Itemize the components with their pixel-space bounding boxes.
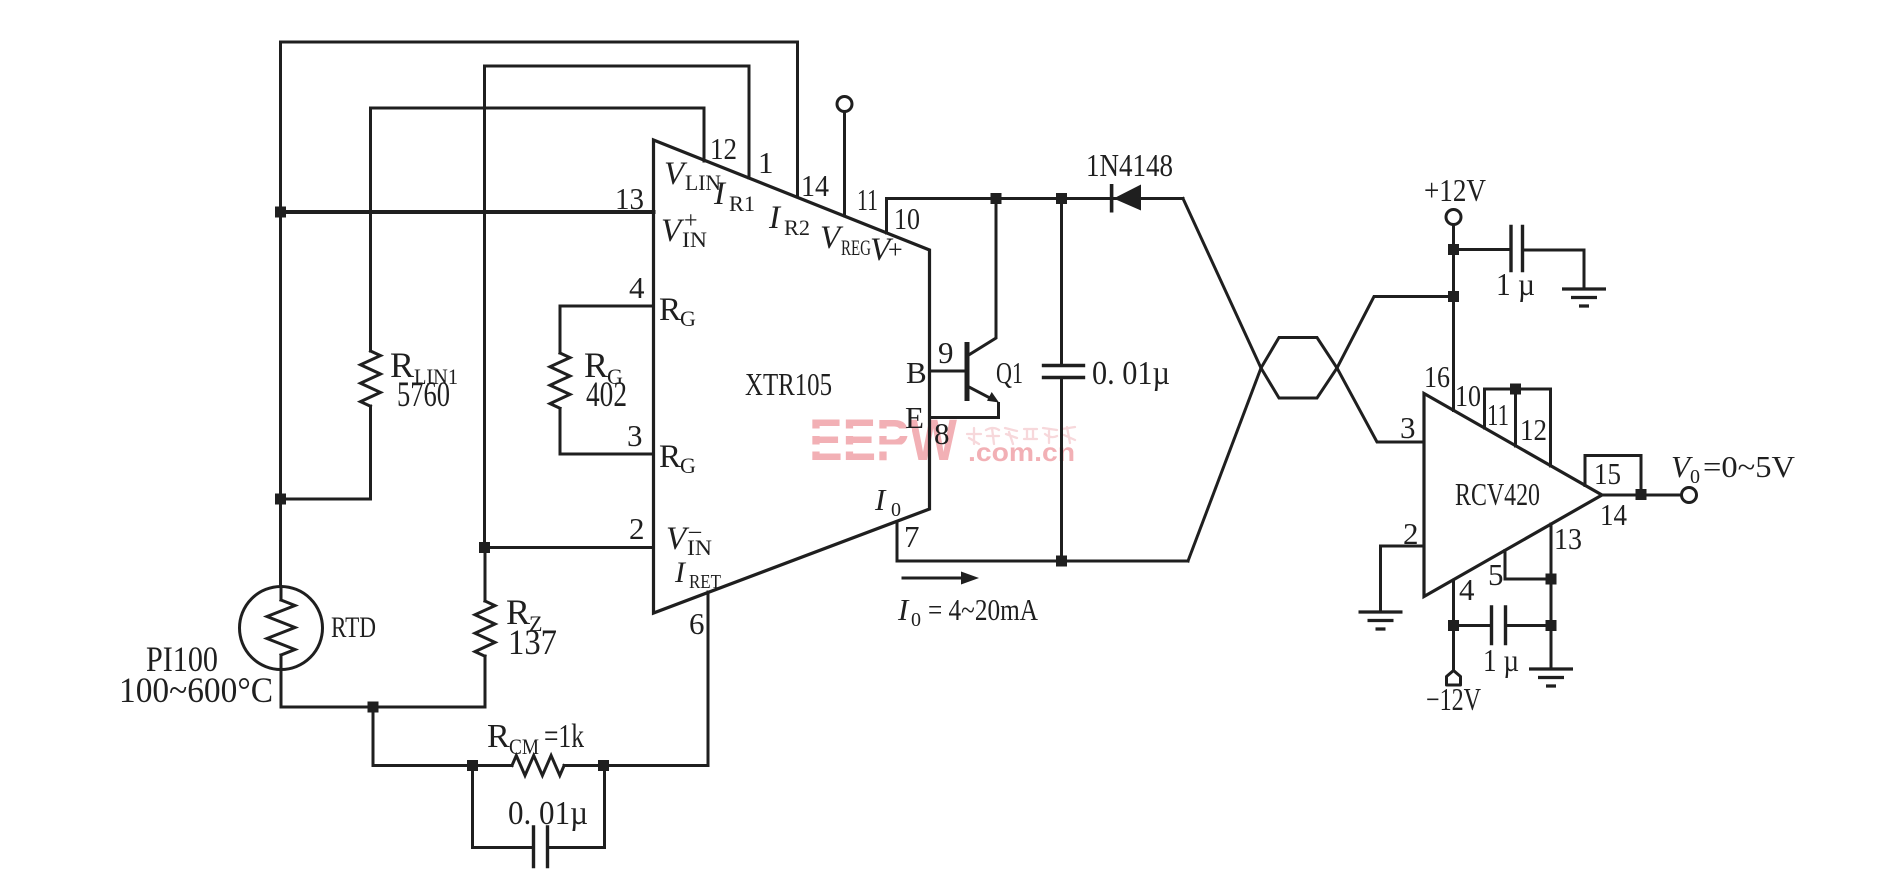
twisted pair loop hexagon: [1261, 338, 1337, 399]
wire RTD bottom rail to RZ: [281, 706, 485, 709]
svg-text:12: 12: [710, 131, 737, 166]
label RG: [584, 345, 623, 389]
wire twisted pair lower-right diagonal to pin 3: [1337, 368, 1424, 442]
transistor Q1 base bar: [965, 342, 970, 401]
terminal +12V: [1446, 210, 1461, 225]
svg-text:16: 16: [1424, 359, 1450, 394]
svg-text:14: 14: [1600, 497, 1627, 532]
svg-text:R: R: [659, 439, 681, 475]
wire pin 2 RCV to ground: [1381, 546, 1425, 612]
svg-text:0. 01µ: 0. 01µ: [508, 795, 588, 832]
wire pin 12 riser: [703, 108, 706, 161]
pin name IR1: [713, 176, 755, 216]
svg-text:1 µ: 1 µ: [1496, 266, 1535, 302]
wire pin 4 drop: [1452, 580, 1455, 671]
svg-text:RET: RET: [689, 571, 721, 593]
node junction RCM right: [598, 760, 609, 771]
capacitor C3 1u plates: [1492, 607, 1506, 644]
node junction pin15/output: [1636, 489, 1647, 500]
svg-text:1N4148: 1N4148: [1086, 147, 1173, 183]
svg-text:0. 01µ: 0. 01µ: [1092, 355, 1170, 392]
svg-text:8: 8: [934, 416, 950, 451]
transistor Q1 emitter: [967, 386, 989, 398]
terminal Vo output: [1682, 488, 1697, 503]
pin name IR2: [768, 200, 810, 240]
svg-text:6: 6: [689, 606, 705, 641]
svg-text:14: 14: [801, 168, 829, 203]
wire pin 15 feedback loop: [1585, 456, 1641, 495]
svg-text:0: 0: [911, 609, 921, 631]
svg-text:4: 4: [1459, 572, 1475, 607]
svg-text:R: R: [659, 292, 681, 328]
svg-text:I: I: [674, 556, 687, 589]
svg-text:1: 1: [758, 145, 774, 180]
wire twisted pair lower-left diagonal: [1188, 368, 1261, 561]
wire pin 1 riser: [748, 66, 751, 178]
wire +12V vertical to pin 16: [1452, 225, 1455, 411]
svg-text:G: G: [680, 453, 696, 478]
pin name RG lower: [659, 439, 696, 478]
node junction Q1 collector: [991, 193, 1002, 204]
svg-text:9: 9: [938, 335, 954, 370]
svg-text:RTD: RTD: [331, 611, 376, 644]
pin name Vin-: [666, 518, 712, 560]
node junction RCM left: [467, 760, 478, 771]
svg-text:I: I: [713, 176, 727, 212]
svg-text:100~600°C: 100~600°C: [119, 670, 273, 710]
pin name VLIN: [664, 156, 721, 195]
svg-text:11: 11: [857, 182, 878, 217]
svg-text:0: 0: [1690, 466, 1700, 488]
svg-text:15: 15: [1594, 456, 1621, 491]
wire pin 4 RG top: [560, 306, 654, 353]
watermark EEPW .com.cn: [806, 408, 1075, 473]
node junction +12V / loop: [1448, 291, 1459, 302]
wire RLIN1 bottom to left rail: [281, 498, 371, 501]
node junction C1 bottom: [1056, 556, 1067, 567]
pin name IRET: [674, 556, 721, 593]
svg-text:CM: CM: [509, 734, 539, 759]
svg-text:.com.cn: .com.cn: [968, 437, 1075, 467]
svg-text:E: E: [905, 400, 924, 435]
wire pin 13 drop: [1550, 524, 1553, 669]
wire base pin 9: [930, 370, 965, 373]
wire twisted pair upper-right diagonal to +12V node: [1337, 297, 1454, 369]
svg-text:Q1: Q1: [996, 355, 1023, 390]
wire RZ top lead: [484, 548, 487, 602]
op-amp U1 XTR105 outline: [654, 140, 930, 613]
node junction C1 top: [1056, 193, 1067, 204]
wire twisted pair upper-left diagonal: [1183, 199, 1261, 369]
wire C3 right lead: [1506, 624, 1552, 627]
svg-text:REG: REG: [841, 235, 871, 260]
svg-text:I: I: [897, 592, 910, 627]
node junction RTD bottom rail: [368, 702, 379, 713]
wire pin 10 RCV riser: [1483, 389, 1486, 428]
wire top supply rail: [887, 197, 1184, 200]
label Io = 4-20mA: [897, 592, 1038, 631]
svg-text:B: B: [906, 355, 927, 390]
wire vertical from pin12 rail to RLIN1: [369, 108, 372, 351]
wire pin 14 riser: [796, 42, 799, 197]
wire capacitor C4 right leg: [548, 766, 605, 848]
wire RZ bottom lead: [484, 656, 487, 707]
wire pin 3 RG bottom: [560, 409, 654, 455]
wire pin 10 stub: [885, 199, 888, 234]
RTD element zigzag: [280, 587, 283, 601]
node junction +12V / C2: [1448, 244, 1459, 255]
wire second rail from pin 1: [485, 65, 750, 68]
wire vertical from pin1 rail down to Vin- node: [483, 66, 486, 548]
node junction RLIN1/left rail: [275, 494, 286, 505]
capacitor C1 0.01u plates: [1044, 366, 1084, 378]
wire pin 5 drop and tie: [1505, 551, 1551, 580]
node junction tie rail: [1510, 384, 1521, 395]
wire pin 12 RCV drop: [1549, 389, 1552, 466]
diode D1 1N4148: [1110, 184, 1114, 213]
node junction pin13/left rail: [275, 207, 286, 218]
wire RLIN1 bottom lead: [369, 406, 372, 499]
resistor RZ 137: [475, 601, 495, 656]
svg-text:13: 13: [615, 181, 644, 216]
wire pin 2 Vin-: [485, 546, 654, 549]
pin name Vin+: [661, 208, 707, 252]
ground at pin 2 RCV: [1359, 612, 1403, 629]
node junction pin4/C3: [1448, 620, 1459, 631]
svg-text:=0~5V: =0~5V: [1703, 449, 1796, 484]
wire down from RTD rail to RCM rail: [372, 707, 375, 766]
svg-text:3: 3: [1400, 410, 1416, 445]
wire RCM right rail to pin 6: [564, 764, 708, 767]
svg-text:11: 11: [1487, 397, 1509, 432]
capacitor C2 1u plates: [1511, 227, 1523, 271]
wire C1 top lead: [1060, 199, 1063, 366]
svg-text:R2: R2: [784, 215, 810, 240]
svg-text:0: 0: [891, 499, 901, 521]
svg-text:7: 7: [904, 519, 920, 554]
wire capacitor C4 left leg: [473, 766, 534, 848]
RTD circle: [240, 587, 323, 670]
svg-text:3: 3: [627, 418, 643, 453]
svg-text:13: 13: [1554, 521, 1582, 556]
wire pin 6 riser: [707, 592, 710, 766]
svg-text:I: I: [874, 482, 887, 517]
svg-text:+12V: +12V: [1424, 172, 1486, 208]
wire pins 10-12 tie rail: [1485, 388, 1551, 391]
node junction pin5/pin13: [1546, 574, 1557, 585]
node junction Vin-/RZ: [479, 542, 490, 553]
wire pin 13 Vin+: [281, 210, 654, 214]
svg-text:=1k: =1k: [544, 718, 584, 755]
svg-text:12: 12: [1520, 412, 1547, 447]
svg-text:4: 4: [629, 270, 645, 305]
op-amp U2 RCV420 outline: [1424, 394, 1602, 597]
wire C2 left lead: [1454, 248, 1512, 251]
svg-text:10: 10: [1455, 378, 1481, 413]
svg-text:1 µ: 1 µ: [1483, 642, 1519, 678]
svg-text:+: +: [684, 208, 698, 234]
svg-text:–: –: [688, 518, 702, 544]
svg-text:5760: 5760: [397, 374, 450, 414]
resistor RLIN1: [361, 351, 381, 406]
svg-text:R1: R1: [729, 191, 755, 216]
capacitor C4 0.01u plates: [534, 827, 548, 867]
svg-text:5: 5: [1488, 557, 1504, 592]
wire RCM left rail: [373, 764, 512, 767]
resistor RCM 1k: [512, 756, 564, 776]
label RCM = 1k: [487, 718, 584, 759]
svg-text:+: +: [888, 235, 903, 264]
svg-text:−12V: −12V: [1426, 681, 1481, 717]
terminal Vreg: [837, 97, 852, 112]
wire C2 right lead: [1523, 250, 1585, 289]
node junction pin13/C3: [1546, 620, 1557, 631]
svg-text:137: 137: [508, 622, 557, 662]
wire RTD bottom lead: [280, 670, 283, 708]
wire C1 bottom lead: [1060, 378, 1063, 562]
wire top rail from pin 14: [281, 41, 798, 44]
wire pin 11 RCV drop: [1514, 389, 1517, 446]
label RZ: [506, 592, 542, 636]
svg-text:10: 10: [894, 201, 920, 236]
svg-text:402: 402: [586, 374, 627, 414]
terminal -12V: [1447, 671, 1461, 686]
svg-text:R: R: [487, 718, 510, 755]
wire C3 left lead: [1454, 624, 1492, 627]
wire output pin 14: [1602, 494, 1682, 497]
ground below C2: [1562, 289, 1606, 306]
svg-text:I: I: [768, 200, 782, 236]
pin name RG upper: [659, 292, 696, 331]
wire third rail from pin 12: [371, 107, 705, 110]
pin name Io: [874, 482, 901, 521]
svg-text:RCV420: RCV420: [1455, 476, 1540, 512]
pin name V+: [870, 232, 903, 268]
wire left vertical rail: [279, 42, 282, 586]
wire pin 11 to terminal: [843, 112, 846, 217]
pin name VREG: [820, 220, 871, 260]
wire bottom loop rail: [897, 560, 1188, 563]
svg-text:XTR105: XTR105: [745, 366, 832, 402]
ground below pin 13: [1529, 669, 1573, 686]
resistor RG 402: [550, 353, 570, 408]
label Vo = 0-5V: [1671, 449, 1796, 488]
svg-text:G: G: [680, 306, 696, 331]
svg-text:2: 2: [629, 511, 645, 546]
annotation Io arrow: [903, 577, 963, 580]
label RLIN1: [390, 345, 458, 389]
transistor Q1 collector: [967, 199, 996, 357]
wire pin 7 stub: [896, 522, 899, 561]
svg-text:= 4~20mA: = 4~20mA: [928, 592, 1038, 627]
